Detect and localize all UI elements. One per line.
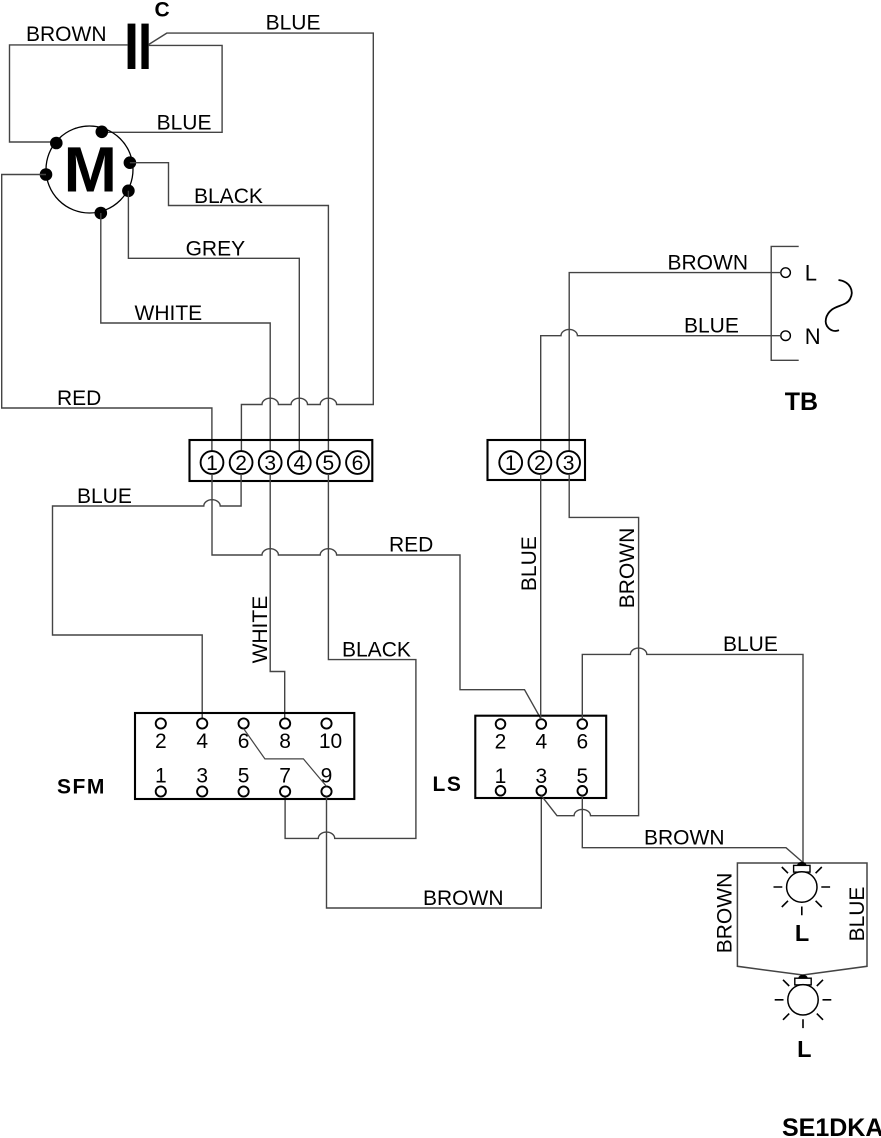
SFM internal switch link pin6-pin9	[244, 729, 327, 787]
svg-text:4: 4	[196, 730, 208, 753]
SFM pin 10	[321, 718, 331, 728]
svg-text:2: 2	[495, 731, 507, 754]
wire black: pin 5 to SFM pin 7	[285, 474, 416, 839]
svg-text:BLUE: BLUE	[266, 12, 321, 35]
svg-text:1: 1	[495, 765, 507, 788]
svg-text:1: 1	[206, 452, 218, 475]
svg-text:3: 3	[264, 452, 276, 475]
wire brown: capacitor to motor terminal	[10, 45, 128, 142]
svg-text:BLUE: BLUE	[723, 633, 778, 656]
TB cable squiggle	[826, 280, 852, 331]
wire grey: motor to terminal strip pin 4	[128, 191, 299, 451]
lamp L1	[797, 862, 806, 866]
svg-text:1: 1	[155, 765, 167, 788]
wire blue: TB N to terminal 2	[541, 329, 781, 451]
SFM pin 8	[280, 718, 290, 728]
svg-text:BROWN: BROWN	[26, 23, 107, 46]
svg-text:BLACK: BLACK	[194, 185, 263, 208]
svg-text:BROWN: BROWN	[616, 528, 639, 609]
svg-text:RED: RED	[57, 387, 101, 410]
lamp L2	[798, 975, 807, 978]
svg-text:8: 8	[279, 730, 291, 753]
svg-text:2: 2	[235, 452, 247, 475]
svg-text:1: 1	[505, 452, 517, 475]
wire brown: LS pin 5 to lamp 1	[582, 796, 803, 863]
LS pin 4	[537, 719, 547, 729]
svg-text:3: 3	[196, 765, 208, 788]
capacitor C	[128, 24, 136, 69]
svg-text:LS: LS	[433, 773, 463, 796]
svg-text:L: L	[795, 920, 809, 946]
wire brown: TB L to terminal 3	[569, 273, 781, 452]
wire blue: capacitor to motor top terminal	[106, 45, 222, 132]
SFM pin 6	[239, 718, 249, 728]
svg-text:4: 4	[293, 452, 305, 475]
wire brown: SFM pin 9 to LS pin 3	[327, 796, 542, 908]
svg-text:N: N	[805, 324, 821, 349]
svg-text:BROWN: BROWN	[423, 887, 504, 910]
SFM pin 2	[156, 718, 166, 728]
svg-text:BLUE: BLUE	[518, 536, 541, 591]
wire blue: terminal 2 to LS pin 4	[540, 474, 542, 719]
svg-text:C: C	[155, 0, 170, 21]
svg-text:7: 7	[279, 765, 291, 788]
svg-text:10: 10	[319, 730, 342, 753]
wire white: motor to terminal strip pin 3	[101, 213, 270, 451]
svg-text:BLUE: BLUE	[157, 112, 212, 135]
wire red: motor to terminal strip pin 1	[2, 175, 212, 452]
pin 3	[557, 451, 580, 474]
svg-text:9: 9	[321, 765, 333, 788]
terminal TB bracket	[771, 246, 799, 360]
svg-text:2: 2	[155, 730, 167, 753]
wire red: pin 1 to LS pin 4	[212, 474, 541, 718]
svg-text:3: 3	[563, 452, 575, 475]
wire blue: capacitor right plate to terminal strip pin 2	[149, 33, 374, 451]
svg-text:BLACK: BLACK	[342, 638, 411, 661]
svg-text:L: L	[805, 261, 817, 286]
svg-text:M: M	[64, 134, 117, 206]
svg-text:5: 5	[576, 765, 588, 788]
svg-text:SFM: SFM	[57, 776, 106, 799]
svg-text:4: 4	[535, 731, 547, 754]
wire black: motor to terminal strip pin 5	[130, 163, 329, 452]
svg-text:WHITE: WHITE	[135, 302, 203, 325]
pin 5	[317, 451, 340, 474]
svg-text:BROWN: BROWN	[714, 873, 737, 954]
svg-text:5: 5	[238, 765, 250, 788]
pin 4	[288, 451, 311, 474]
svg-text:WHITE: WHITE	[249, 596, 272, 664]
svg-text:BLUE: BLUE	[684, 315, 739, 338]
svg-text:BROWN: BROWN	[668, 251, 749, 274]
svg-text:BLUE: BLUE	[846, 887, 869, 942]
LS pin 6	[578, 719, 588, 729]
svg-text:GREY: GREY	[186, 238, 246, 261]
connector SFM	[135, 713, 354, 799]
svg-text:TB: TB	[785, 388, 818, 416]
terminal strip 1-6	[190, 440, 373, 481]
svg-text:3: 3	[535, 765, 547, 788]
TB terminal N	[781, 331, 791, 341]
lamp housing box	[737, 863, 867, 975]
LS pin 2	[496, 719, 506, 729]
wire white: pin 3 to SFM pin 8	[270, 474, 285, 719]
svg-text:SE1DKA: SE1DKA	[782, 1114, 881, 1138]
svg-text:RED: RED	[389, 534, 433, 557]
SFM pin 4	[197, 718, 207, 728]
motor M	[46, 126, 133, 213]
pin 1	[201, 451, 224, 474]
TB terminal L	[781, 268, 791, 278]
svg-text:BLUE: BLUE	[77, 485, 132, 508]
svg-text:6: 6	[352, 452, 364, 475]
svg-text:6: 6	[576, 731, 588, 754]
pin 3	[259, 451, 282, 474]
svg-text:2: 2	[534, 452, 546, 475]
wire brown: terminal 3 to LS pin 3	[541, 474, 638, 816]
wire blue: LS pin 6 to lamp 1	[582, 648, 803, 862]
wire blue: pin 2 to SFM pin 4	[53, 474, 242, 719]
pin 1	[499, 451, 522, 474]
svg-text:L: L	[797, 1036, 811, 1062]
svg-text:BROWN: BROWN	[644, 826, 725, 849]
pin 2	[529, 451, 552, 474]
pin 2	[230, 451, 253, 474]
terminal strip 1-3	[488, 440, 586, 480]
svg-text:5: 5	[323, 452, 335, 475]
motor terminal dots	[96, 126, 109, 139]
connector LS	[475, 716, 606, 798]
pin 6	[346, 451, 369, 474]
